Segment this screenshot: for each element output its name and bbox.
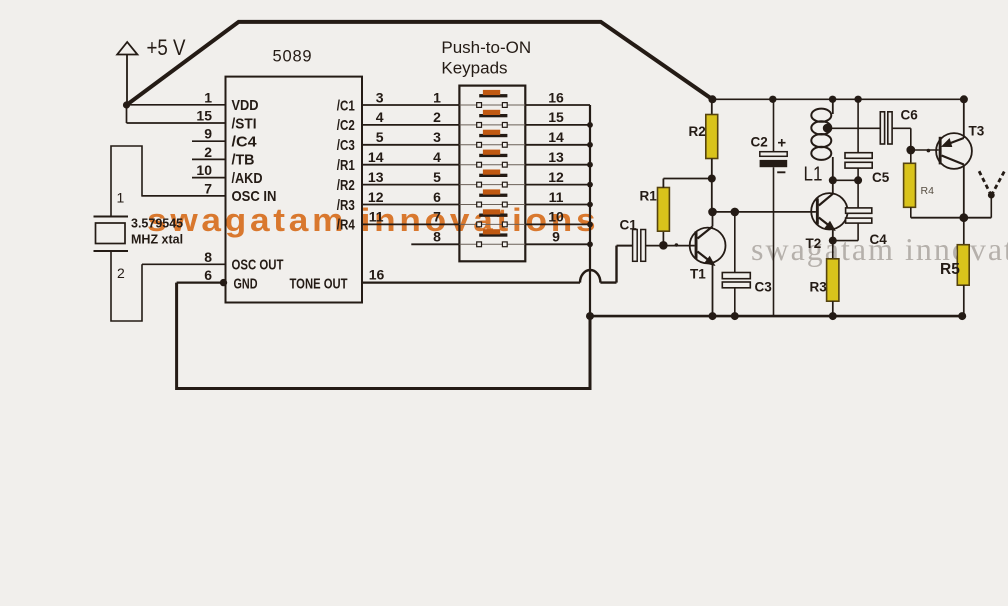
svg-text:/R4: /R4 bbox=[337, 217, 356, 234]
svg-text:4: 4 bbox=[376, 109, 384, 125]
svg-text:6: 6 bbox=[433, 189, 441, 205]
svg-text:C4: C4 bbox=[870, 232, 888, 247]
svg-text:C6: C6 bbox=[901, 108, 919, 123]
svg-text:Keypads: Keypads bbox=[441, 59, 507, 78]
svg-text:+: + bbox=[777, 134, 786, 151]
svg-text:9: 9 bbox=[204, 126, 212, 142]
svg-text:/R3: /R3 bbox=[337, 197, 355, 214]
svg-text:8: 8 bbox=[433, 229, 441, 245]
svg-text:8: 8 bbox=[204, 249, 212, 265]
svg-text:11: 11 bbox=[549, 189, 564, 205]
svg-text:R5: R5 bbox=[940, 261, 960, 278]
svg-text:1: 1 bbox=[433, 89, 441, 105]
svg-text:3.579545: 3.579545 bbox=[131, 217, 183, 231]
svg-text:16: 16 bbox=[369, 267, 385, 283]
svg-text:R1: R1 bbox=[640, 189, 658, 204]
svg-text:/TB: /TB bbox=[232, 152, 255, 169]
svg-text:7: 7 bbox=[433, 209, 441, 225]
svg-text:3: 3 bbox=[433, 129, 441, 145]
svg-text:4: 4 bbox=[433, 149, 441, 165]
svg-text:C1: C1 bbox=[620, 217, 638, 232]
svg-text:/R2: /R2 bbox=[337, 177, 355, 194]
svg-text:16: 16 bbox=[548, 89, 564, 105]
svg-text:OSC IN: OSC IN bbox=[232, 188, 277, 205]
svg-text:/C2: /C2 bbox=[337, 117, 355, 134]
svg-text:+5 V: +5 V bbox=[147, 35, 186, 60]
svg-text:9: 9 bbox=[552, 229, 560, 245]
svg-text:MHZ xtal: MHZ xtal bbox=[131, 233, 183, 247]
svg-text:12: 12 bbox=[368, 189, 384, 205]
svg-text:11: 11 bbox=[369, 209, 384, 225]
svg-text:5: 5 bbox=[376, 129, 384, 145]
svg-text:3: 3 bbox=[376, 89, 384, 105]
svg-text:10: 10 bbox=[548, 209, 564, 225]
svg-text:R3: R3 bbox=[810, 280, 828, 295]
svg-text:C5: C5 bbox=[872, 170, 890, 185]
svg-text:OSC OUT: OSC OUT bbox=[232, 257, 284, 274]
svg-text:/C1: /C1 bbox=[337, 97, 355, 114]
svg-text:T1: T1 bbox=[690, 267, 706, 282]
svg-text:L1: L1 bbox=[804, 163, 823, 186]
svg-text:/C3: /C3 bbox=[337, 137, 355, 154]
svg-text:6: 6 bbox=[204, 267, 212, 283]
svg-text:/C4: /C4 bbox=[232, 134, 258, 151]
svg-text:/R1: /R1 bbox=[337, 157, 355, 174]
svg-text:C2: C2 bbox=[751, 135, 768, 150]
svg-text:Push-to-ON: Push-to-ON bbox=[441, 38, 531, 57]
svg-text:2: 2 bbox=[204, 144, 212, 160]
svg-text:2: 2 bbox=[433, 109, 441, 125]
svg-text:1: 1 bbox=[204, 89, 212, 105]
svg-text:R2: R2 bbox=[689, 124, 706, 139]
svg-text:14: 14 bbox=[368, 149, 384, 165]
svg-text:T2: T2 bbox=[806, 236, 822, 251]
svg-text:15: 15 bbox=[548, 109, 564, 125]
svg-text:13: 13 bbox=[548, 149, 564, 165]
svg-text:12: 12 bbox=[548, 169, 564, 185]
svg-text:C3: C3 bbox=[755, 280, 773, 295]
svg-text:5089: 5089 bbox=[273, 48, 313, 66]
svg-text:/AKD: /AKD bbox=[232, 170, 263, 187]
svg-text:R4: R4 bbox=[921, 185, 935, 197]
svg-text:5: 5 bbox=[433, 169, 441, 185]
svg-text:13: 13 bbox=[368, 169, 384, 185]
svg-text:GND: GND bbox=[234, 275, 258, 292]
svg-text:7: 7 bbox=[204, 180, 212, 196]
svg-text:TONE OUT: TONE OUT bbox=[290, 275, 348, 292]
svg-text:/STI: /STI bbox=[232, 115, 257, 132]
svg-text:14: 14 bbox=[548, 129, 564, 145]
svg-text:10: 10 bbox=[196, 162, 212, 178]
svg-text:15: 15 bbox=[196, 108, 212, 124]
svg-text:T3: T3 bbox=[969, 124, 985, 139]
svg-text:1: 1 bbox=[117, 190, 125, 206]
svg-text:2: 2 bbox=[117, 265, 125, 281]
svg-text:VDD: VDD bbox=[232, 97, 259, 114]
